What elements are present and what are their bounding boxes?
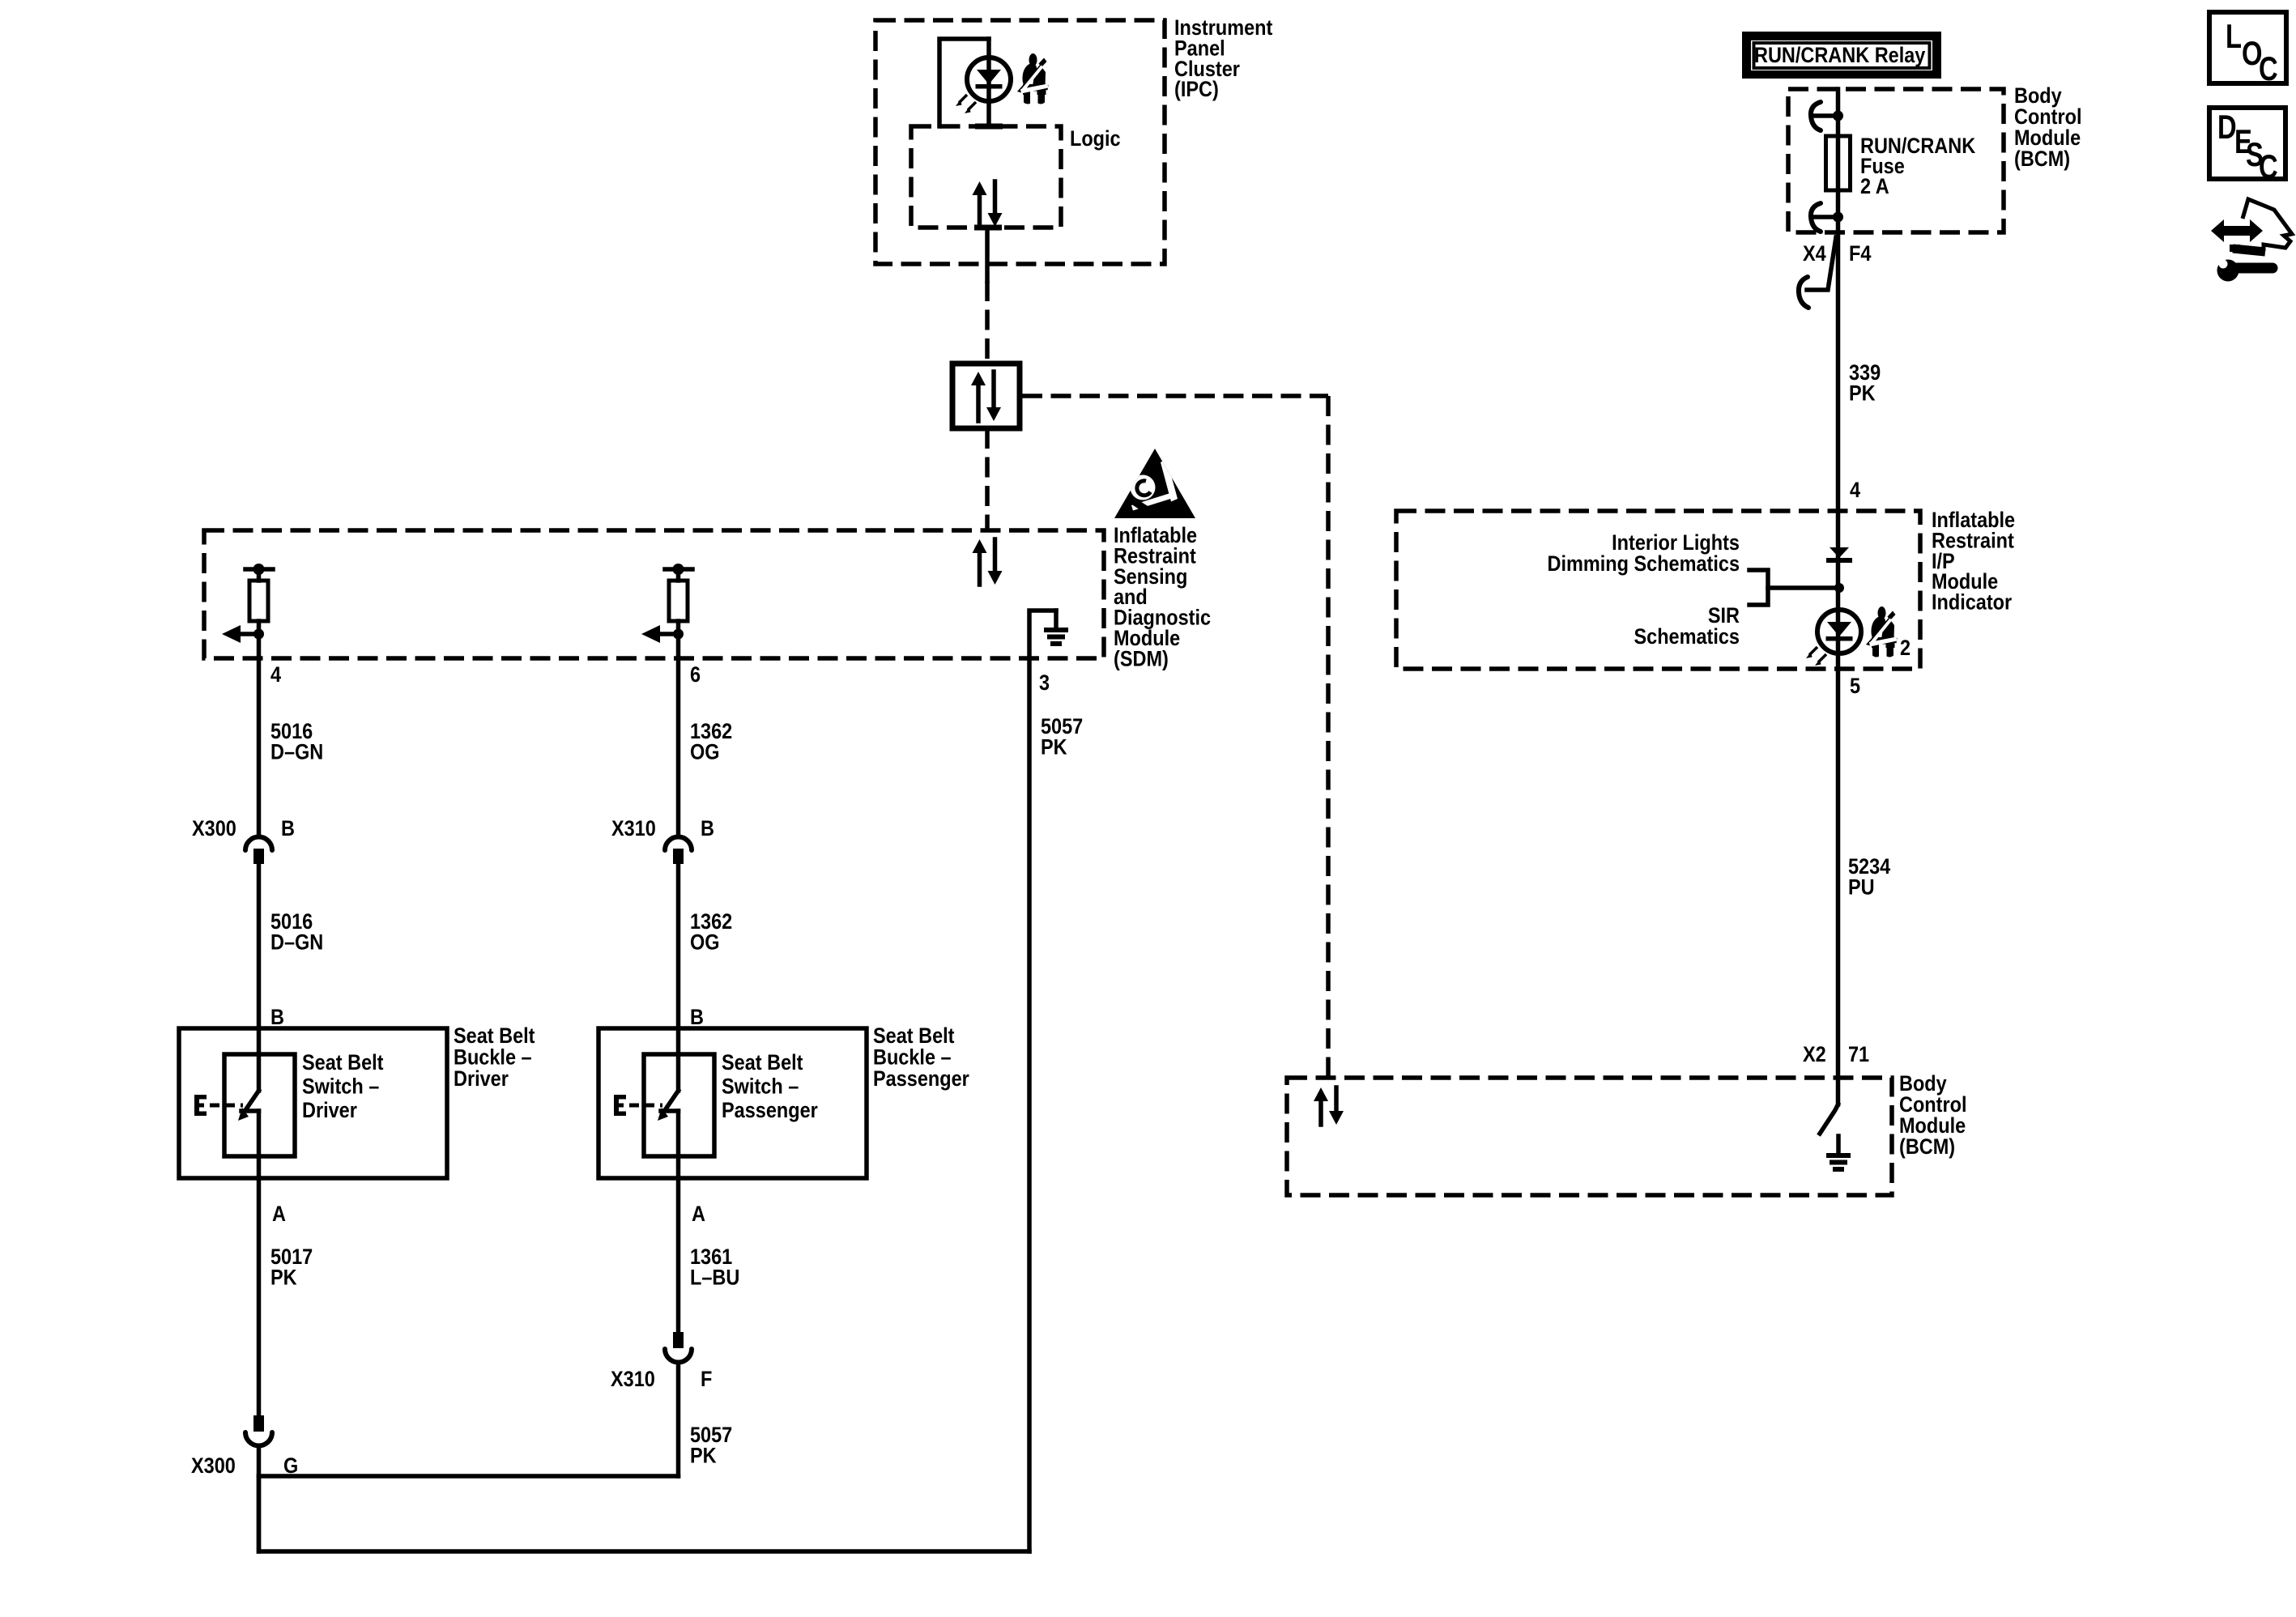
label: X300 (G) <box>191 1454 236 1479</box>
svg-text:4: 4 <box>270 663 281 687</box>
terminal bar: LED to Logic box <box>975 124 1003 130</box>
label: X310 (F) <box>611 1368 655 1392</box>
fuse F1: RUN/CRANK Fuse 2 A <box>1826 136 1851 190</box>
label: circuit 5016 D-GN lower <box>270 910 323 955</box>
svg-text:A: A <box>272 1202 286 1227</box>
label: pictograph quantity 2 <box>1900 636 1910 661</box>
pin 5 label (I/P module) <box>1850 674 1860 699</box>
pin B label (buckle driver) <box>270 1006 284 1030</box>
svg-text:6: 6 <box>690 663 701 687</box>
label: circuit 5234 PU <box>1848 855 1890 900</box>
label: X4 <box>1803 242 1826 266</box>
svg-text:C: C <box>2259 49 2278 87</box>
pin 6 label (SDM) <box>690 663 701 687</box>
wire: splice run passenger to driver ground <box>259 1474 679 1479</box>
pin 4 label (SDM) <box>270 663 281 687</box>
label: circuit 1362 OG upper <box>690 720 732 764</box>
label: circuit 5057 PK (passenger run) <box>690 1423 732 1468</box>
node: junction below fuse <box>1833 212 1843 223</box>
svg-text:3: 3 <box>1039 671 1050 696</box>
wire: circuit 5057 from X310 F down <box>676 1363 681 1476</box>
connector X4 terminal F4 slash <box>1799 237 1836 308</box>
label: RUN/CRANK Relay <box>1754 44 1925 68</box>
svg-text:X310: X310 <box>611 817 656 841</box>
connector X300 pin G <box>245 1415 272 1446</box>
wire: dashed serial data down to BCM box <box>1326 396 1331 1078</box>
relay contact finger lower <box>1811 203 1833 232</box>
label: Instrument Panel Cluster (IPC) <box>1174 16 1273 102</box>
connector X300 pin B <box>245 837 272 865</box>
icon: seat belt reminder pictograph (IPC) <box>1017 53 1049 105</box>
pin 3 label (SDM) <box>1039 671 1050 696</box>
label: X310 <box>611 817 656 841</box>
label: Body Control Module (BCM) bottom <box>1899 1072 1966 1160</box>
title box: RUN/CRANK Relay <box>1742 32 1941 79</box>
label: circuit 5017 PK <box>270 1245 313 1290</box>
icon: DESC reference box <box>2209 108 2285 185</box>
diode D1: indicator blocking diode <box>1826 547 1852 563</box>
icon: seat belt pictograph (I/P indicator) <box>1866 606 1898 658</box>
ground G1: SDM internal signal ground (pin 3) <box>1029 611 1068 658</box>
wire: ground bus bottom run to SDM pin 3 <box>259 1476 1030 1551</box>
svg-text:X300: X300 <box>192 817 236 841</box>
pin A label (buckle passenger) <box>692 1202 705 1227</box>
svg-text:B: B <box>281 817 295 841</box>
module box: Inflatable Restraint Sensing and Diagnostic Module (SDM) <box>204 530 1104 658</box>
svg-text:1361L–BU: 1361L–BU <box>690 1245 739 1290</box>
svg-text:B: B <box>270 1006 284 1030</box>
terminal bar: Logic box output <box>974 225 1002 231</box>
svg-text:71: 71 <box>1848 1043 1869 1067</box>
svg-text:D: D <box>2217 108 2237 146</box>
relay contact finger upper <box>1811 102 1833 130</box>
lamp L2: I/P module seat belt indicator LED <box>1806 610 1861 666</box>
label: SIR Schematics <box>1634 604 1740 649</box>
svg-text:B: B <box>690 1006 704 1030</box>
wire: RUN/CRANK feed vertical <box>1836 89 1841 1104</box>
label: Body Control Module (BCM) top <box>2014 84 2081 172</box>
wire: circuit 5016 upper segment (driver) <box>257 658 262 833</box>
label: circuit 339 PK <box>1849 361 1881 406</box>
serial data arrows into BCM <box>1314 1087 1344 1125</box>
module box: Instrument Panel Cluster (IPC) dashed outline <box>875 20 1165 264</box>
connector X310 pin F <box>665 1332 692 1363</box>
switch SW2: passenger buckle switch blade <box>658 1091 679 1121</box>
svg-text:L: L <box>2226 17 2242 55</box>
dashed actuation line E to switch (driver) <box>210 1104 243 1108</box>
svg-text:4: 4 <box>1850 479 1860 503</box>
solenoid actuator label E (passenger) <box>614 1095 626 1116</box>
svg-text:RUN/CRANK Relay: RUN/CRANK Relay <box>1754 44 1925 68</box>
wire: driver switch to pin A <box>257 1111 262 1415</box>
label: Inflatable Restraint I/P Module Indicator <box>1932 509 2015 615</box>
icon: SIR warning triangle <box>1114 449 1195 518</box>
svg-text:A: A <box>692 1202 705 1227</box>
wire: IPC output solid segment <box>985 228 990 281</box>
resistor R1: driver discrete input pull-up in SDM <box>222 564 273 658</box>
component box: Seat Belt Buckle - Passenger <box>598 1028 867 1178</box>
label: circuit 5016 D-GN upper <box>270 720 323 764</box>
serial data arrows inside Logic <box>973 181 1003 227</box>
wire: dashed serial data to BCM (right) <box>1022 394 1328 398</box>
svg-text:F: F <box>701 1368 712 1392</box>
node: dimming feed junction <box>1834 583 1844 593</box>
label: Seat Belt Buckle - Driver <box>454 1024 535 1091</box>
bracket: schematic references <box>1749 570 1768 605</box>
wire: IPC lamp feed bracket <box>939 39 989 126</box>
switch box: Seat Belt Switch - Driver <box>224 1054 295 1156</box>
pin B label (buckle passenger) <box>690 1006 704 1030</box>
solenoid actuator label E (driver) <box>194 1095 207 1116</box>
wire: passenger switch to pin A <box>676 1111 681 1332</box>
resistor R2: passenger discrete input pull-up in SDM <box>641 564 692 658</box>
wire: dimming feed horizontal <box>1768 585 1839 590</box>
svg-text:B: B <box>701 817 714 841</box>
wire: dashed serial data down to SDM <box>985 428 990 530</box>
label: Inflatable Restraint Sensing and Diagnostic Module (SDM) <box>1114 524 1211 671</box>
label: pin G (X300) <box>283 1454 298 1479</box>
svg-text:2: 2 <box>1900 636 1910 661</box>
label: X2 <box>1803 1043 1826 1067</box>
ground G2: BCM internal ground <box>1826 1136 1851 1169</box>
node: junction above fuse <box>1833 111 1843 121</box>
lamp L1: seat belt indicator LED in IPC <box>956 57 1011 113</box>
dashed actuation line E to switch (passenger) <box>629 1104 662 1108</box>
wire: circuit 1362 lower segment (passenger) <box>676 862 681 1091</box>
connector X310 pin B <box>665 837 692 865</box>
svg-text:C: C <box>2259 147 2278 185</box>
svg-text:5: 5 <box>1850 674 1860 699</box>
wire: IPC lamp vertical <box>986 39 991 124</box>
pin 4 label (I/P module) <box>1850 479 1860 503</box>
switch SW3: BCM indicator driver <box>1820 1104 1838 1134</box>
component box: Seat Belt Buckle - Driver <box>179 1028 447 1178</box>
label: circuit 5057 PK (SDM run) <box>1041 715 1083 760</box>
svg-text:F4: F4 <box>1849 242 1871 266</box>
label: RUN/CRANK Fuse 2 A <box>1860 134 1976 199</box>
switch SW1: driver buckle switch blade <box>238 1091 259 1121</box>
icon: diagnostic jump arrow with wrench <box>2211 199 2292 282</box>
label: circuit 1362 OG lower <box>690 910 732 955</box>
label: Seat Belt Switch - Driver <box>302 1051 384 1123</box>
switch box: Seat Belt Switch - Passenger <box>644 1054 714 1156</box>
label: F4 <box>1849 242 1871 266</box>
svg-text:X4: X4 <box>1803 242 1826 266</box>
wire: circuit 5057 up to SDM pin 3 <box>1027 658 1032 1551</box>
label: Interior Lights Dimming Schematics <box>1548 531 1740 577</box>
serial data arrows into SDM <box>973 539 1003 585</box>
label: pin F (X310) <box>701 1368 712 1392</box>
module box: Body Control Module (BCM) bottom dashed outline <box>1287 1078 1892 1195</box>
svg-text:X310: X310 <box>611 1368 655 1392</box>
label: pin B (X300) <box>281 817 295 841</box>
svg-text:X300: X300 <box>191 1454 236 1479</box>
module box: Inflatable Restraint I/P Module Indicator dashed outline <box>1396 511 1920 669</box>
svg-text:X2: X2 <box>1803 1043 1826 1067</box>
label: circuit 1361 L-BU <box>690 1245 739 1290</box>
pin A label (buckle driver) <box>272 1202 286 1227</box>
module box: IPC Logic dashed outline <box>911 126 1061 228</box>
wire: circuit 5016 lower segment (driver) <box>257 862 262 1091</box>
wire: driver ground run down <box>257 1446 262 1551</box>
node: serial data gateway box <box>952 364 1020 428</box>
wire: circuit 1362 upper segment (passenger) <box>676 658 681 833</box>
icon: LOC reference box <box>2209 12 2286 87</box>
label: Logic <box>1070 127 1121 151</box>
module box: Body Control Module (BCM) top dashed outline <box>1788 89 2004 232</box>
label: Seat Belt Switch - Passenger <box>722 1051 818 1123</box>
label: pin 71 <box>1848 1043 1869 1067</box>
label: Seat Belt Buckle - Passenger <box>873 1024 969 1091</box>
svg-text:Logic: Logic <box>1070 127 1121 151</box>
wire: serial data dashed segment IPC to gateway <box>985 281 990 364</box>
label: X300 <box>192 817 236 841</box>
label: pin B (X310) <box>701 817 714 841</box>
